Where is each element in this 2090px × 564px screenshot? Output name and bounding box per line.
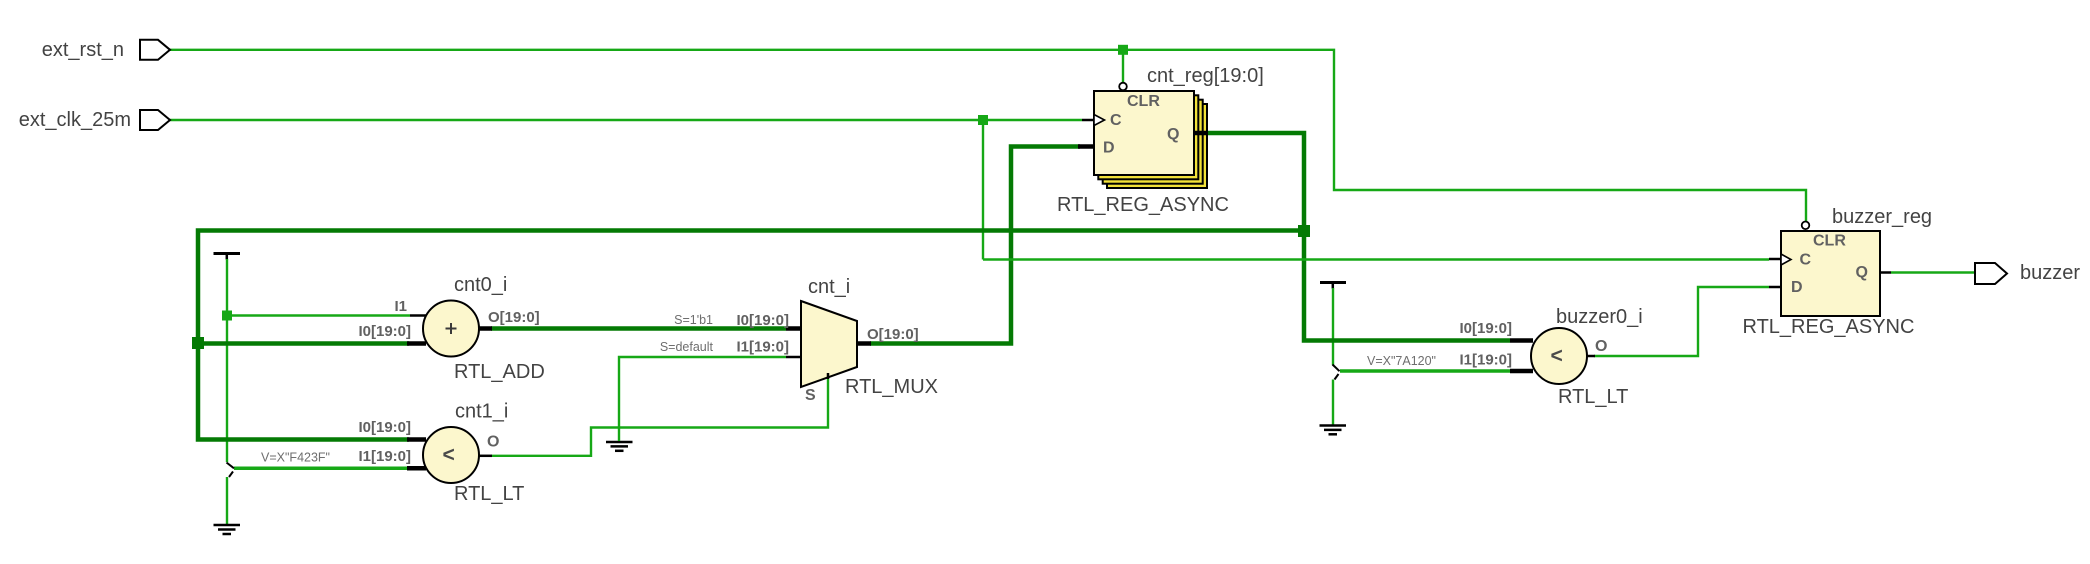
value label V=X"7A120" [1367, 354, 1436, 368]
svg-text:S=1'b1: S=1'b1 [674, 313, 713, 327]
input port ext_clk_25m [19, 109, 170, 131]
adder cnt0_i (RTL_ADD) [358, 274, 544, 383]
svg-text:O[19:0]: O[19:0] [488, 309, 540, 326]
power VCC bar (constant for buzzer0_i I1) [1320, 283, 1346, 289]
svg-text:ext_clk_25m: ext_clk_25m [19, 109, 131, 131]
svg-text:cnt_i: cnt_i [808, 276, 850, 298]
svg-text:RTL_REG_ASYNC: RTL_REG_ASYNC [1057, 194, 1229, 216]
svg-text:C: C [1110, 112, 1122, 129]
svg-text:RTL_REG_ASYNC: RTL_REG_ASYNC [1743, 316, 1915, 338]
comparator cnt1_i (RTL_LT) [358, 401, 524, 506]
wire cnt1_i O to cnt_i mux S [491, 379, 828, 456]
svg-text:buzzer_reg: buzzer_reg [1832, 206, 1932, 228]
svg-text:CLR: CLR [1127, 93, 1160, 110]
junction ext_rst_n branch to cnt_reg CLR [1118, 45, 1128, 55]
svg-text:<: < [443, 444, 455, 467]
ground (right constant) [1320, 426, 1347, 435]
svg-text:V=X"F423F": V=X"F423F" [261, 451, 330, 465]
svg-text:cnt_reg[19:0]: cnt_reg[19:0] [1147, 65, 1264, 87]
comparator buzzer0_i (RTL_LT) [1459, 306, 1642, 408]
svg-text:O: O [487, 434, 499, 451]
wire feedback bus to cnt0_i I0 [198, 341, 409, 346]
svg-text:O[19:0]: O[19:0] [867, 326, 919, 343]
svg-text:D: D [1791, 279, 1803, 296]
ground (left constant) [214, 525, 241, 534]
wire ext_rst_n net [170, 50, 1806, 221]
svg-text:I0[19:0]: I0[19:0] [358, 323, 411, 340]
junction cnt_reg Q feedback branch [1298, 225, 1310, 237]
svg-text:CLR: CLR [1813, 233, 1846, 250]
power VCC bar (constant 1 for cnt0_i I1) [214, 254, 241, 260]
svg-text:D: D [1103, 140, 1115, 157]
svg-text:I0[19:0]: I0[19:0] [736, 312, 789, 329]
svg-text:I1[19:0]: I1[19:0] [358, 448, 411, 465]
svg-text:I1[19:0]: I1[19:0] [736, 339, 789, 356]
wire buzzer0_i O to buzzer_reg D [1594, 287, 1769, 356]
wire constant V=X"F423F" to cnt1_i I1 [234, 467, 408, 471]
ground (constant 0 for mux I1, S=default) [606, 442, 633, 451]
svg-text:ext_rst_n: ext_rst_n [42, 39, 124, 61]
svg-text:buzzer0_i: buzzer0_i [1556, 306, 1643, 328]
select case label S=default [660, 340, 714, 354]
wire from ripper down to right ground [1332, 380, 1334, 425]
input port ext_rst_n [42, 39, 170, 61]
svg-text:RTL_MUX: RTL_MUX [845, 376, 938, 398]
junction feedback bus at cnt0_i I0 [192, 337, 204, 349]
svg-text:C: C [1800, 252, 1812, 269]
wire right constant vertical down to ripper [1332, 288, 1334, 365]
wire cnt_i mux O to cnt_reg D (bus) [870, 147, 1080, 344]
svg-text:S=default: S=default [660, 340, 714, 354]
svg-text:RTL_ADD: RTL_ADD [454, 361, 545, 383]
svg-text:RTL_LT: RTL_LT [1558, 386, 1628, 408]
svg-text:RTL_LT: RTL_LT [454, 483, 524, 505]
wire feedback bus to left [198, 231, 1304, 440]
svg-text:Q: Q [1856, 264, 1868, 281]
svg-text:<: < [1551, 345, 1563, 368]
svg-text:cnt0_i: cnt0_i [454, 274, 507, 296]
register cnt_reg[19:0] (RTL_REG_ASYNC) [1057, 65, 1264, 216]
svg-text:cnt1_i: cnt1_i [455, 401, 508, 423]
wire ext_clk_25m to cnt_reg C [170, 119, 1082, 121]
svg-text:I1[19:0]: I1[19:0] [1459, 352, 1512, 369]
wire buzzer_reg Q to buzzer port [1891, 271, 1975, 273]
bus ripper V=X"7A120" [1333, 365, 1340, 380]
wire cnt_reg Q to buzzer0_i I0 (bus) [1206, 133, 1510, 341]
junction ext_clk_25m branch [978, 115, 988, 125]
value label V=X"F423F" [261, 451, 330, 465]
wire ext_clk_25m branch to buzzer_reg C [983, 258, 1769, 260]
svg-text:I1: I1 [394, 298, 407, 315]
wire ext_clk_25m branch vertical [982, 120, 984, 260]
svg-text:Q: Q [1167, 126, 1179, 143]
select case label S=1'b1 [674, 313, 713, 327]
svg-text:I0[19:0]: I0[19:0] [1459, 320, 1512, 337]
wire ground to cnt_i mux I1 [619, 357, 786, 441]
wire constant net vertical and to cnt0_i I1 [227, 259, 410, 462]
mux cnt_i (RTL_MUX) [736, 276, 938, 404]
svg-text:O: O [1595, 338, 1607, 355]
junction constant net at cnt0_i I1 [222, 311, 232, 321]
bus ripper V=X"F423F" [227, 463, 235, 478]
output port buzzer [1975, 262, 2080, 284]
svg-text:S: S [805, 387, 816, 404]
svg-text:V=X"7A120": V=X"7A120" [1367, 354, 1436, 368]
register buzzer_reg (RTL_REG_ASYNC) [1743, 206, 1933, 338]
wire constant V=X"7A120" to buzzer0_i I1 [1340, 369, 1510, 373]
wire cnt0_i O to cnt_i mux I0 (bus) [491, 326, 786, 331]
svg-text:buzzer: buzzer [2020, 262, 2080, 284]
wire from ripper down to left ground [226, 477, 228, 524]
svg-text:I0[19:0]: I0[19:0] [358, 419, 411, 436]
